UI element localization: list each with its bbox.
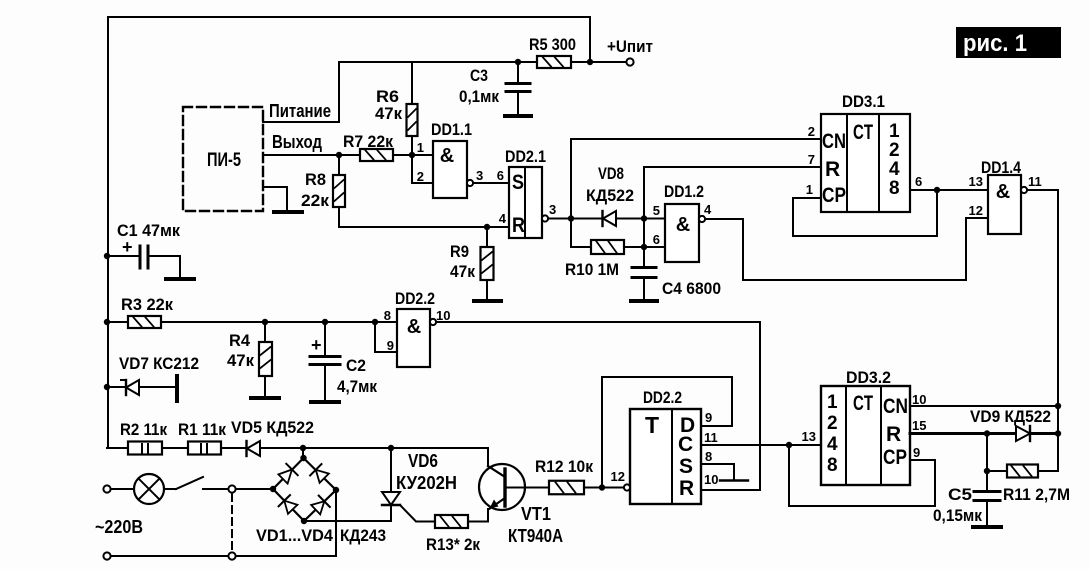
svg-text:Питание: Питание [269,101,331,121]
svg-text:10: 10 [704,472,718,487]
svg-text:6: 6 [653,232,660,247]
wire DD3.1 out6 to DD1.4 pin13 [910,189,988,191]
svg-text:DD2.1: DD2.1 [505,147,546,166]
svg-text:VD1...VD4: VD1...VD4 [256,526,334,545]
wire DD1.4 out down right side [1027,190,1058,471]
node C2 tap [322,319,328,325]
wire R1 to VD5 [221,447,488,449]
wire to bridge left [236,488,273,490]
svg-text:4: 4 [827,434,838,455]
svg-text:12: 12 [611,469,625,484]
wire DD3.2 R line [910,432,1058,435]
capacitor C3 0,1mk [517,62,519,83]
svg-text:T: T [645,412,659,438]
wire AC bottom [111,555,228,557]
svg-text:4: 4 [704,202,712,217]
svg-text:DD1.2: DD1.2 [664,182,704,201]
node D-loop tap [599,484,605,490]
svg-text:ПИ-5: ПИ-5 [207,150,241,171]
svg-text:VD5 КД522: VD5 КД522 [231,418,314,437]
svg-text:R2 11к: R2 11к [120,420,167,439]
svg-text:5: 5 [653,203,660,218]
wire R13 to emitter [468,510,488,522]
svg-text:0,15мк: 0,15мк [933,506,982,525]
connector top circle [228,485,235,492]
svg-text:S: S [512,171,524,194]
wire base to R12 [507,487,549,489]
svg-text:VD6: VD6 [408,451,438,471]
wire DD2.2 C to DD3.2 pin13 [701,444,821,446]
svg-text:2: 2 [827,413,838,434]
ground R4 [251,396,279,400]
bridge diode upper-right [316,470,329,483]
svg-text:4: 4 [499,211,507,226]
svg-text:2: 2 [417,169,424,184]
resistor R6 47k [411,62,413,104]
wire bridge minus to VD6 cathode [304,505,391,521]
sensor PI-5 box [183,107,263,211]
wire DD2.2 D loop [602,377,732,488]
node CN2 tap [1055,403,1061,409]
svg-text:CP: CP [822,184,846,207]
svg-text:47к: 47к [450,262,475,281]
svg-text:VD9 КД522: VD9 КД522 [970,407,1051,426]
wire DD2.1 out feedback to DD3.1 CN [571,139,821,219]
svg-text:+: + [311,335,322,355]
resistor R7 22k [360,149,393,161]
svg-text:C3: C3 [470,66,488,85]
wire R2-R1 [162,447,188,449]
node R10 right junction [641,244,647,250]
resistor R1 11k [188,442,221,455]
svg-text:12: 12 [969,203,983,218]
terminal +Upit [626,58,633,65]
wire DD2.2 S-R tie [701,464,734,480]
svg-text:&: & [440,145,454,167]
thyristor VD6 KU202N [390,448,392,492]
bridge VD1...VD4 diamond [302,448,304,458]
svg-text:10: 10 [912,392,926,407]
diode VD9 KD522 [1016,426,1030,441]
wire bus to R2 [107,447,128,449]
node bridge plus tap [300,445,306,451]
resistor R5 300 [537,56,571,68]
svg-text:рис. 1: рис. 1 [963,30,1027,57]
svg-text:CN: CN [883,395,908,418]
svg-text:0,1мк: 0,1мк [459,87,499,106]
svg-text:R8: R8 [305,170,326,189]
resistor R4 47k [264,322,266,342]
svg-text:R: R [886,423,901,446]
node VD6 anode tap [388,445,394,451]
node R8 tap [336,152,342,158]
wire Vyhod output [263,154,433,156]
resistor R13* 2k [435,515,468,528]
ground C5 [973,525,1001,529]
wire DD1.1 pin2 link [412,155,433,183]
lamp HL1 [111,488,134,490]
resistor R8 22k [338,155,340,175]
svg-text:CP: CP [883,446,907,469]
svg-text:&: & [407,316,421,338]
svg-text:R: R [679,477,694,500]
node bus R3 tap [104,319,110,325]
svg-text:CN: CN [822,130,846,153]
wire DD1.1 out to DD2.1 S [473,182,509,184]
ground R9 [474,299,501,303]
svg-text:Выход: Выход [272,132,322,152]
svg-text:7: 7 [808,152,815,167]
terminal 220V bottom [103,552,110,559]
svg-text:R11 2,7М: R11 2,7М [1003,485,1070,504]
svg-text:DD3.2: DD3.2 [846,368,891,387]
svg-text:R1 11к: R1 11к [178,420,226,439]
wire DD3.2 CN out [910,405,1058,407]
wire R3 bus [107,321,128,323]
wire left supply bus [107,17,109,448]
svg-text:1: 1 [889,121,900,142]
svg-text:47к: 47к [227,351,254,370]
wire DD2.1 out [548,218,665,220]
wire DD3.1 R feedback [644,167,821,247]
svg-text:КТ940А: КТ940А [508,526,563,546]
node DD1.2 pin5 tap [641,215,647,221]
ground PI-5 [263,187,287,210]
svg-text:R: R [512,214,525,237]
resistor R3 22k [128,316,161,328]
svg-text:1: 1 [417,140,424,155]
svg-text:8: 8 [384,308,391,323]
bridge diode upper-left [278,470,292,484]
svg-text:9: 9 [387,338,394,353]
diode VD8 [603,211,616,226]
wire bottom to bridge right [236,490,336,556]
capacitor C4 6800 [643,247,645,267]
wire DD3.2 CP loop [789,445,935,506]
node R9 tap [484,224,490,230]
ground C1 [166,277,194,281]
wire Pitanie to +U rail [263,62,537,122]
svg-text:2: 2 [808,124,815,139]
svg-text:2: 2 [889,140,900,161]
svg-text:13: 13 [802,429,816,444]
node R4 tap [262,319,268,325]
wire R8 to DD2.1 R input [339,226,509,228]
svg-text:3: 3 [549,202,556,217]
wire DD3.2 pin13 entry [789,444,821,446]
node DD3.1 out junction [934,187,940,193]
svg-text:10: 10 [436,308,450,323]
svg-text:&: & [676,214,690,236]
svg-text:R3 22к: R3 22к [121,295,173,314]
svg-text:9: 9 [913,445,920,460]
node R6 bottom junction [409,152,415,158]
bridge diode lower-left [284,501,297,514]
wire DD1.2 out to DD1.4 pin12 [705,218,988,280]
svg-text:9: 9 [705,410,712,425]
svg-text:&: & [996,181,1010,203]
figure label ris.1 [956,27,1061,58]
node pin13 junction [786,442,792,448]
node feedback top tap [568,215,574,221]
svg-text:КУ202Н: КУ202Н [396,473,457,493]
svg-text:VD8: VD8 [598,164,624,183]
svg-text:8: 8 [889,178,900,199]
svg-text:6: 6 [497,168,504,183]
ground C4 [631,299,657,303]
resistor R2 11k [128,442,162,455]
svg-text:8: 8 [827,455,838,476]
chassis bar VD7 [175,376,179,401]
resistor R10 1M [571,219,591,248]
terminal 220V top [103,485,110,492]
bridge diode lower-right [311,501,324,514]
node gate input tap [372,319,378,325]
node top bus join [587,59,593,65]
svg-text:VT1: VT1 [521,504,551,524]
svg-text:~220В: ~220В [95,517,143,537]
svg-text:R10 1М: R10 1М [565,260,619,279]
svg-text:S: S [679,455,693,478]
svg-text:КД522: КД522 [586,186,634,205]
svg-text:R5 300: R5 300 [529,35,576,54]
capacitor C5 0,15mk [986,471,988,491]
node C3 tap [515,59,521,65]
resistor R12 10k [549,481,584,495]
svg-text:1: 1 [806,182,813,197]
ground C3 [505,114,531,118]
switch SA1 [164,488,176,490]
svg-text:DD2.2: DD2.2 [643,388,682,407]
svg-text:DD2.2: DD2.2 [395,289,435,308]
svg-text:CT: CT [853,392,873,415]
resistor R9 47k [486,227,488,247]
node VD9 cathode tap [1055,430,1061,436]
svg-text:1: 1 [827,392,838,413]
svg-text:CT: CT [853,121,873,144]
wire gate DD2.2 out to flip-flop R [436,322,760,490]
svg-text:22к: 22к [301,191,329,210]
svg-text:R9: R9 [450,242,469,261]
svg-text:8: 8 [705,449,712,464]
wire DD3.1 CP loop [793,190,937,236]
svg-text:+: + [122,237,133,257]
wire R12 to flip-flop pin12 [584,487,624,489]
svg-text:+Uпит: +Uпит [607,37,653,56]
wire top bus [108,17,590,62]
connector bottom circle [228,552,235,559]
svg-text:C5: C5 [948,485,972,504]
transistor VT1 KT940A [487,448,489,466]
svg-text:VD7 КС212: VD7 КС212 [119,354,199,373]
svg-text:R13* 2к: R13* 2к [426,535,480,554]
svg-text:R7 22к: R7 22к [343,132,393,151]
svg-text:C: C [678,433,693,456]
svg-text:C4 6800: C4 6800 [662,279,721,298]
svg-text:47к: 47к [375,104,402,123]
svg-text:DD1.1: DD1.1 [431,120,472,139]
connector dashed link [231,494,233,551]
svg-text:КД243: КД243 [340,526,386,545]
resistor R11 2,7M [986,434,988,472]
svg-text:R: R [825,158,840,181]
wire R5 to +U terminal [571,61,626,63]
svg-text:13: 13 [969,174,983,189]
svg-text:4: 4 [889,159,900,180]
wire gate DD2.2 pins 8-9 tie [375,322,397,352]
diode VD5 KD522 [247,441,260,456]
svg-text:11: 11 [704,430,718,445]
svg-text:3: 3 [476,168,483,183]
ground C2 [311,400,339,404]
node R11 top tap [984,430,990,436]
svg-text:R12 10к: R12 10к [535,457,593,476]
svg-text:6: 6 [915,174,922,189]
svg-text:R4: R4 [229,331,251,350]
svg-text:DD3.1: DD3.1 [842,92,885,111]
svg-text:4,7мк: 4,7мк [337,377,377,396]
svg-text:15: 15 [912,418,926,433]
svg-text:11: 11 [1028,174,1042,189]
svg-text:C2: C2 [346,356,366,375]
